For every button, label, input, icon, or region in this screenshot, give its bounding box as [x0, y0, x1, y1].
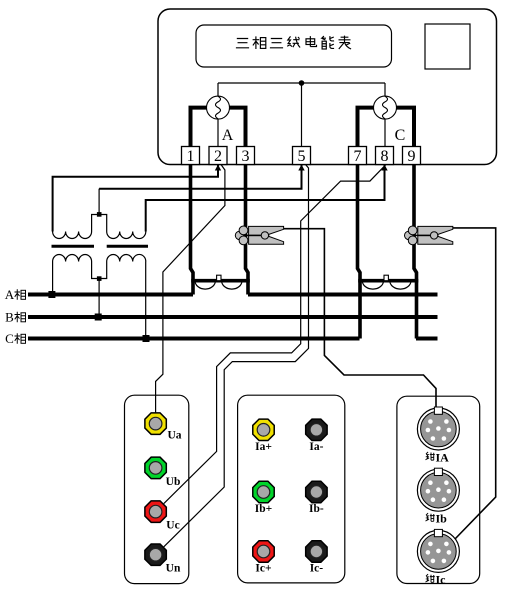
svg-text:Ic: Ic [436, 573, 447, 587]
svg-text:IA: IA [436, 450, 450, 464]
svg-text:C: C [395, 127, 406, 144]
svg-text:3: 3 [242, 148, 250, 165]
svg-text:A: A [5, 287, 15, 302]
svg-text:2: 2 [214, 148, 222, 165]
svg-text:8: 8 [381, 148, 389, 165]
svg-text:Ib-: Ib- [309, 503, 324, 515]
svg-text:Un: Un [166, 563, 181, 575]
svg-text:5: 5 [298, 148, 306, 165]
svg-text:Ib: Ib [436, 512, 448, 526]
svg-text:Ia+: Ia+ [255, 441, 272, 453]
svg-text:Ia-: Ia- [309, 441, 323, 453]
svg-text:B: B [5, 310, 14, 325]
svg-text:9: 9 [408, 148, 416, 165]
svg-text:Ic-: Ic- [310, 563, 324, 575]
svg-text:Ua: Ua [167, 430, 181, 442]
svg-text:A: A [222, 127, 234, 144]
svg-text:7: 7 [354, 148, 362, 165]
svg-text:1: 1 [187, 148, 195, 165]
svg-text:C: C [5, 331, 14, 346]
svg-text:Uc: Uc [166, 520, 179, 532]
svg-text:Ib+: Ib+ [255, 503, 272, 515]
svg-text:Ic+: Ic+ [255, 563, 271, 575]
svg-text:Ub: Ub [166, 476, 181, 488]
